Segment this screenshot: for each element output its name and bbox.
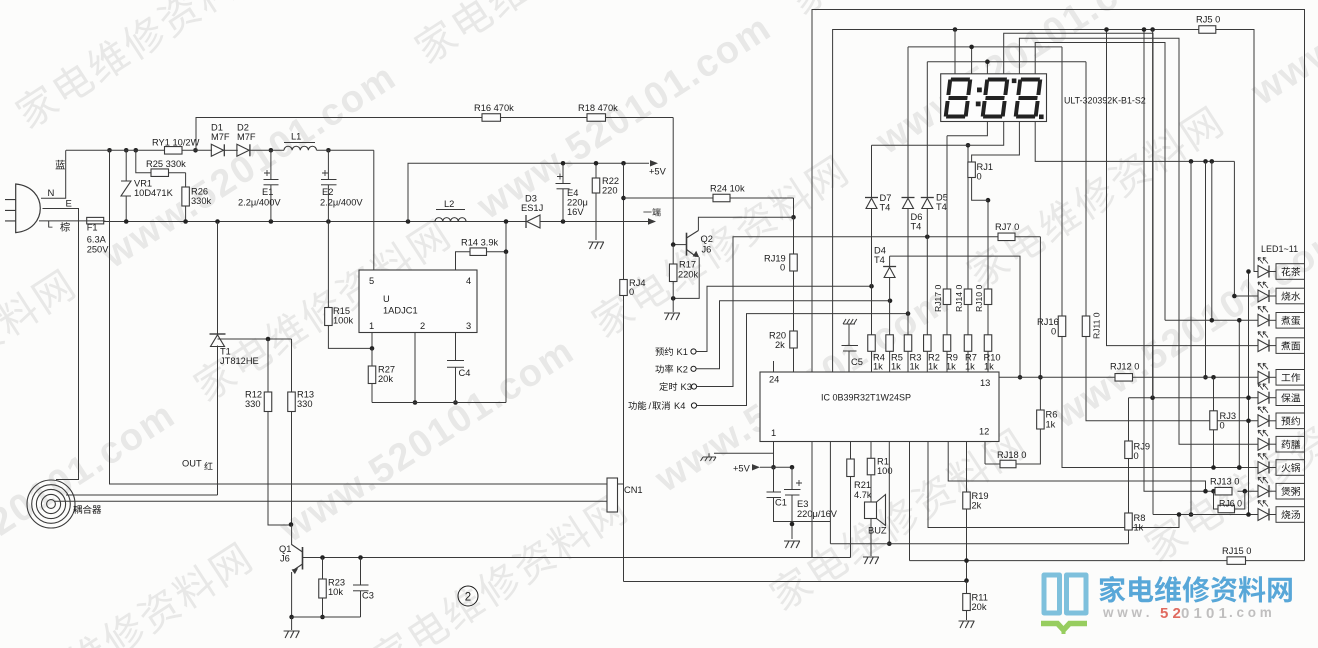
wire to 烧汤 LED: [1190, 161, 1192, 514]
svg-text:R25 330k: R25 330k: [146, 159, 186, 169]
resistor RJ12: [1115, 374, 1133, 382]
svg-text:L1: L1: [291, 132, 301, 142]
ground below BUZ: [863, 557, 879, 564]
wire col6 RJ14/R7: [967, 145, 969, 289]
svg-text:100: 100: [877, 466, 893, 476]
resistor R20: [790, 331, 798, 348]
svg-text:2: 2: [465, 592, 471, 604]
svg-text:12: 12: [979, 427, 989, 437]
wire col5 RJ17/R9: [946, 136, 948, 289]
svg-text:R6: R6: [1046, 410, 1058, 420]
ground below E3: [784, 541, 800, 548]
svg-text:R16 470k: R16 470k: [474, 103, 514, 113]
resistor RJ13: [1215, 487, 1232, 495]
svg-text:1k: 1k: [910, 362, 920, 372]
svg-text:C3: C3: [362, 591, 374, 601]
svg-text:R19: R19: [972, 491, 989, 501]
ground below R17: [664, 313, 680, 320]
svg-text:E3: E3: [797, 499, 808, 509]
label 功能/取消 K4: [628, 401, 646, 410]
wire to 煮蛋 LED: [1211, 161, 1213, 320]
wire RJ16 column: [1061, 47, 1063, 316]
svg-text:24: 24: [769, 375, 779, 385]
wire col7 RJ10/R10: [987, 200, 989, 289]
resistor R22: [595, 163, 597, 178]
wire display top pin f: [1035, 43, 1165, 321]
svg-text:RY1 10/2W: RY1 10/2W: [152, 138, 200, 148]
wire IC pin x948 down: [948, 442, 1205, 492]
wire Q2 collector: [698, 217, 793, 230]
svg-text:0: 0: [1134, 451, 1139, 461]
svg-text:4.7k: 4.7k: [854, 490, 872, 500]
wire R24 line: [624, 197, 714, 199]
svg-text:2k: 2k: [972, 501, 982, 511]
resistor RJ17: [943, 289, 951, 305]
wire Q2 base: [673, 244, 686, 246]
svg-text:RJ10 0: RJ10 0: [974, 285, 984, 312]
svg-text:. c o m: . c o m: [1229, 605, 1272, 620]
wire K3 to RJ7 line: [697, 237, 998, 387]
wire display bottom pin d: [1035, 122, 1234, 162]
svg-text:T4: T4: [880, 203, 891, 213]
wire coupler center to CN1 bottom: [55, 500, 607, 502]
svg-text:RJ1: RJ1: [977, 162, 994, 172]
resistor R26: [185, 173, 187, 187]
svg-text:ULT-320392K-B1-S2: ULT-320392K-B1-S2: [1064, 96, 1146, 106]
svg-text:D5: D5: [936, 193, 948, 203]
key K3: [691, 384, 696, 389]
LED 烧水: [1258, 290, 1269, 302]
wire Q1 emitter bus: [292, 616, 361, 618]
varistor VR1: [125, 150, 127, 181]
svg-text:R22: R22: [602, 176, 619, 186]
svg-text:R20: R20: [769, 331, 786, 341]
capacitor C1: [773, 467, 775, 492]
wire col2 D4/R5: [889, 256, 891, 266]
svg-text:+5V: +5V: [733, 464, 751, 474]
svg-text:N: N: [48, 188, 55, 199]
svg-text:RJ18 0: RJ18 0: [997, 450, 1026, 460]
LED 煲粥: [1258, 485, 1269, 497]
svg-text:1: 1: [369, 321, 374, 331]
svg-text:K2: K2: [677, 365, 688, 375]
resistor RJ4: [620, 280, 628, 296]
arrow +5V terminal: [650, 160, 658, 166]
svg-text:0: 0: [780, 263, 785, 273]
resistor RY1: [165, 147, 183, 155]
wire U pin2 down: [414, 333, 416, 403]
wire 保温 line: [1129, 397, 1259, 399]
svg-text:D4: D4: [874, 246, 886, 256]
svg-text:T4: T4: [874, 255, 885, 265]
resistor R27: [371, 348, 373, 366]
label 红 (red): [204, 462, 212, 470]
inductor L2: [435, 218, 466, 222]
ground below Q1: [291, 617, 293, 630]
svg-text:2.2μ/400V: 2.2μ/400V: [320, 198, 363, 208]
wire CN1 right to bottom bus: [618, 483, 624, 485]
inductor L1: [284, 146, 317, 150]
resistor R9: [943, 335, 951, 352]
wire N riser: [41, 150, 66, 198]
label -端: [643, 208, 660, 216]
svg-text:6.3A: 6.3A: [87, 234, 107, 244]
svg-text:1k: 1k: [965, 362, 975, 372]
svg-text:R14 3.9k: R14 3.9k: [461, 238, 499, 248]
svg-text:R21: R21: [854, 480, 871, 490]
diode D1: [223, 144, 225, 156]
wire R8 bottom line: [830, 543, 889, 545]
svg-text:0: 0: [977, 172, 982, 182]
display digit 2: [980, 78, 1009, 119]
svg-text:RJ3: RJ3: [1220, 411, 1237, 421]
svg-text:20k: 20k: [972, 602, 987, 612]
wire Q1 base line: [303, 557, 851, 559]
svg-text:330: 330: [245, 399, 261, 409]
logo book icon: [1044, 575, 1086, 613]
svg-text:3: 3: [466, 321, 471, 331]
wire feedback line: [196, 118, 482, 151]
resistor R11: [966, 581, 968, 594]
arrow -end terminal: [648, 218, 656, 224]
svg-text:330k: 330k: [191, 196, 212, 206]
svg-text:RJ16: RJ16: [1037, 317, 1059, 327]
capacitor E2: [327, 150, 329, 179]
resistor RJ16: [1058, 316, 1066, 337]
svg-text:R8: R8: [1134, 513, 1146, 523]
svg-text:L2: L2: [444, 199, 454, 209]
resistor R17: [672, 245, 674, 264]
wire display top pin b + D6 line: [971, 47, 973, 74]
wire IC pin x889 down: [888, 442, 890, 544]
svg-text:2.2μ/400V: 2.2μ/400V: [238, 198, 281, 208]
wire RJ5 line: [833, 30, 1199, 373]
svg-text:T4: T4: [911, 222, 922, 232]
svg-text:R13: R13: [297, 390, 314, 400]
label 蓝 (blue wire): [56, 160, 66, 169]
wire pin24 stub: [773, 361, 775, 372]
svg-text:R18 470k: R18 470k: [578, 103, 618, 113]
svg-text:1: 1: [771, 428, 776, 438]
resistor R15: [327, 222, 329, 308]
resistor RJ15: [1227, 557, 1246, 565]
diode D5: [921, 197, 934, 199]
wire display top pin c + D5 line: [986, 62, 988, 74]
resistor R1: [870, 442, 872, 459]
wire RJ4 column: [623, 163, 625, 279]
wire K2: [696, 301, 890, 369]
wire bus x1239: [1238, 320, 1240, 467]
resistor R6: [1037, 410, 1045, 429]
svg-text:D2: D2: [237, 123, 249, 133]
wire T1 to R12 R13: [218, 338, 292, 340]
svg-text:2: 2: [420, 321, 425, 331]
resistor RJ10: [984, 289, 992, 305]
display digit 3: [1013, 78, 1042, 119]
thyristor T1: [210, 333, 226, 335]
svg-text:R26: R26: [191, 187, 208, 197]
logo text 家电维修资料网: [1099, 576, 1292, 603]
svg-text:Q2: Q2: [701, 234, 713, 244]
svg-text:/: /: [649, 401, 652, 411]
wire display top pin e: [1019, 38, 1258, 444]
svg-text:20k: 20k: [378, 374, 393, 384]
svg-text:R27: R27: [378, 365, 395, 375]
wire col3 D6/R3: [907, 47, 909, 198]
svg-text:RJ9: RJ9: [1134, 442, 1151, 452]
wire display top pin d: [1004, 33, 1153, 514]
svg-text:1k: 1k: [873, 362, 883, 372]
svg-text:RJ11 0: RJ11 0: [1092, 312, 1102, 339]
wire U pin4 to R14: [456, 252, 471, 270]
wire RJ5 to LED1: [1216, 30, 1258, 272]
svg-text:OUT: OUT: [182, 459, 202, 469]
diode D3: [525, 215, 527, 228]
resistor R7: [964, 335, 972, 352]
wire D4 top line: [890, 256, 1020, 377]
LED 预约: [1258, 415, 1269, 427]
svg-text:+5V: +5V: [649, 167, 667, 177]
svg-text:VR1: VR1: [134, 179, 152, 189]
label 功率 K2: [655, 365, 673, 374]
svg-text:RJ14 0: RJ14 0: [954, 285, 964, 312]
diode D6: [902, 197, 915, 199]
label circled 2: [458, 586, 478, 606]
wire R25 branch: [136, 150, 151, 172]
display decimal point: [1039, 115, 1044, 120]
svg-text:E: E: [66, 199, 72, 210]
svg-text:T1: T1: [220, 347, 231, 357]
label 棕 (brown wire): [60, 222, 70, 231]
svg-text:R1: R1: [877, 457, 889, 467]
resistor RJ7: [998, 233, 1015, 241]
svg-text:RJ15 0: RJ15 0: [1222, 546, 1251, 556]
LED 煮面: [1258, 340, 1269, 352]
ground below R11: [959, 621, 975, 628]
wire Q1 collector riser: [291, 525, 293, 546]
wire R14 to rail riser: [487, 251, 507, 253]
wire U pin3 to C4: [455, 333, 457, 361]
capacitor C3: [360, 558, 362, 586]
wire display bottom pin a: [947, 122, 987, 136]
svg-text:M7F: M7F: [237, 132, 256, 142]
svg-text:16V: 16V: [567, 207, 584, 217]
svg-text:13: 13: [980, 378, 990, 388]
svg-text:220k: 220k: [678, 270, 699, 280]
resistor RJ6 parallel loop: [1214, 491, 1219, 509]
svg-text:R17: R17: [679, 260, 696, 270]
svg-text:CN1: CN1: [624, 485, 643, 495]
svg-text:C1: C1: [775, 498, 787, 508]
capacitor E1: [270, 150, 272, 179]
resistor R12: [267, 339, 269, 392]
wire bus x1144 to 煲粥 line: [1144, 30, 1215, 492]
IC U 1ADJC1: [359, 270, 477, 333]
svg-text:1ADJC1: 1ADJC1: [383, 306, 418, 316]
wire bus x1106 to 煮面 line: [1107, 30, 1259, 346]
svg-text:RJ7 0: RJ7 0: [995, 222, 1019, 232]
LED 煮蛋: [1258, 314, 1269, 326]
svg-text:4: 4: [466, 276, 471, 286]
wire +5V to caps: [760, 466, 792, 468]
svg-text:M7F: M7F: [211, 132, 230, 142]
wire K4: [697, 314, 908, 406]
wire R20 to IC: [793, 348, 795, 372]
ground at IC pin1: [708, 453, 710, 457]
svg-text:IC 0B39R32T1W24SP: IC 0B39R32T1W24SP: [821, 393, 911, 403]
wire display top pin a: [954, 30, 956, 74]
display DS1 7-segment: [941, 74, 1047, 122]
svg-text:1k: 1k: [928, 362, 938, 372]
LED 烧汤: [1258, 509, 1269, 521]
svg-text:R12: R12: [245, 390, 262, 400]
label 预约 K1: [655, 347, 673, 356]
svg-text:5: 5: [369, 276, 374, 286]
resistor R14: [470, 248, 487, 256]
LED 工作: [1258, 371, 1269, 383]
resistor R19: [963, 492, 971, 509]
wire coupler to CN1 top (OUT line): [110, 150, 608, 484]
resistor RJ11: [1082, 316, 1090, 337]
svg-text:RJ5 0: RJ5 0: [1196, 15, 1220, 25]
connector CN1: [607, 478, 618, 512]
svg-text:J6: J6: [702, 245, 712, 255]
svg-text:U: U: [383, 294, 390, 304]
svg-text:220μ: 220μ: [567, 198, 588, 208]
svg-text:BUZ: BUZ: [868, 526, 887, 536]
resistor R24: [713, 194, 730, 202]
svg-text:Q1: Q1: [279, 544, 291, 554]
svg-text:LED1~11: LED1~11: [1261, 244, 1298, 254]
wire to 工作 node: [1205, 161, 1207, 377]
resistor R23: [322, 558, 324, 580]
svg-text:F1: F1: [87, 223, 98, 233]
resistor RJ19: [793, 217, 795, 254]
wire IC pin x909 down (RJ15 net): [909, 442, 911, 561]
wire display bottom pin c + RJ1: [972, 122, 1020, 163]
IC 0B39R32T1W24SP: [760, 372, 999, 442]
wire +5V riser: [408, 163, 649, 221]
svg-text:J6: J6: [280, 554, 290, 564]
wire 工作 line from IC pin13: [999, 376, 1115, 378]
display colon: [976, 88, 982, 107]
frame outer border: [812, 10, 1305, 561]
label 定时 K3: [659, 382, 677, 391]
svg-text:0: 0: [1220, 421, 1225, 431]
svg-text:K4: K4: [674, 401, 685, 411]
wire col4 D5/R2: [926, 62, 928, 198]
key K2: [691, 366, 696, 371]
label 耦合器: [73, 505, 101, 514]
svg-text:T4: T4: [936, 202, 947, 212]
svg-text:R24 10k: R24 10k: [710, 184, 745, 194]
resistor RJ1: [968, 162, 976, 178]
transistor Q2: [686, 233, 688, 256]
resistor R25: [151, 169, 169, 177]
resistor R4: [868, 335, 876, 352]
svg-text:D3: D3: [525, 194, 537, 204]
svg-text:E4: E4: [567, 188, 578, 198]
wire R19 column: [966, 442, 968, 493]
svg-text:K1: K1: [677, 347, 688, 357]
wire col1 D7/R4: [871, 145, 873, 197]
resistor RJ14: [964, 289, 972, 305]
display upper dot: [1012, 79, 1017, 84]
transistor Q1: [302, 547, 304, 570]
wire RJ19 to R20: [793, 271, 795, 331]
wire display bottom pin b: [872, 122, 1004, 146]
capacitor E4: [562, 163, 564, 183]
diode D2: [249, 144, 251, 156]
wire K1: [696, 286, 871, 351]
resistor R3: [904, 335, 912, 352]
svg-text:10k: 10k: [328, 587, 343, 597]
wire bottom rail (L / -end): [104, 221, 526, 223]
svg-text:1k: 1k: [946, 362, 956, 372]
key K4: [691, 403, 696, 408]
wire IC pin12 to RJ18: [984, 442, 986, 465]
wire E lead-down to coupler: [43, 209, 79, 480]
svg-text:R15: R15: [333, 306, 350, 316]
buzzer BUZ: [865, 502, 877, 519]
ground below R22: [588, 242, 604, 249]
capacitor E3: [791, 467, 793, 489]
capacitor C4: [447, 360, 464, 362]
resistor R21: [850, 442, 852, 460]
svg-text:5 2: 5 2: [1160, 605, 1181, 622]
svg-text:RJ6 0: RJ6 0: [1219, 499, 1242, 509]
diode D4: [883, 266, 896, 268]
resistor R13: [291, 339, 293, 392]
svg-text:C5: C5: [851, 357, 863, 367]
svg-text:ES1J: ES1J: [521, 203, 543, 213]
wire IC pin x830: [829, 442, 831, 522]
wire T1 column: [217, 222, 219, 335]
svg-text:1k: 1k: [984, 362, 994, 372]
wire L to fuse: [39, 220, 87, 222]
resistor R10: [984, 335, 992, 352]
display digit 1: [943, 78, 972, 119]
svg-text:2k: 2k: [775, 340, 785, 350]
svg-text:220: 220: [602, 186, 618, 196]
LED 花茶: [1258, 266, 1269, 278]
svg-text:10D471K: 10D471K: [134, 188, 174, 198]
wire L1 to U pin5 riser: [373, 150, 375, 270]
resistor R8: [1128, 459, 1130, 514]
svg-text:0: 0: [1051, 327, 1056, 337]
diode D7: [865, 197, 878, 199]
resistor RJ3: [1213, 377, 1215, 411]
resistor R18: [587, 114, 606, 122]
coupler coil (concentric): [27, 480, 75, 528]
svg-text:E1: E1: [262, 187, 273, 197]
LED 火锅: [1258, 462, 1269, 474]
svg-text:R11: R11: [972, 593, 988, 603]
wire U pin1 down: [371, 333, 373, 349]
fuse F1: [87, 217, 104, 224]
wire top rail: [66, 149, 165, 151]
wire Q2 emitter: [673, 257, 699, 298]
wire Q1 emitter down: [291, 572, 293, 617]
svg-text:1k: 1k: [1134, 523, 1144, 533]
capacitor C5: [843, 319, 857, 324]
svg-text:1k: 1k: [891, 362, 901, 372]
svg-text:D6: D6: [911, 212, 923, 222]
wire U bottom bus: [372, 402, 506, 404]
LED 药膳: [1258, 438, 1269, 450]
key K1: [691, 349, 696, 354]
resistor RJ18: [1000, 460, 1016, 468]
